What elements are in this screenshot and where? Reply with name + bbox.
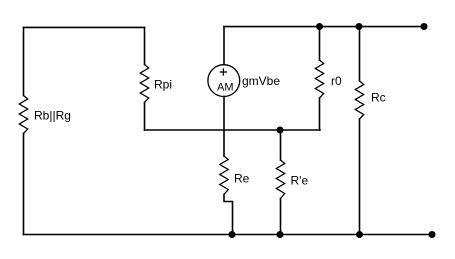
node dot R'e bottom xyxy=(277,231,284,238)
wire Rpi bottom lead xyxy=(144,103,146,131)
node dot output terminal top right xyxy=(421,23,428,30)
wire current source top lead xyxy=(223,27,225,65)
wire left vertical upper xyxy=(23,27,25,95)
svg-text:R'e: R'e xyxy=(291,174,309,188)
wire middle rail xyxy=(145,129,321,131)
wire R'e bottom lead xyxy=(280,199,282,235)
node dot Re bottom xyxy=(229,231,236,238)
svg-text:r0: r0 xyxy=(331,74,342,88)
wire r0 top lead xyxy=(319,27,321,60)
wire top-right segment xyxy=(224,26,424,28)
svg-text:Rb||Rg: Rb||Rg xyxy=(34,109,71,123)
wire r0 bottom lead xyxy=(319,98,321,130)
wire left vertical lower xyxy=(23,134,25,235)
resistor r0 xyxy=(315,60,323,98)
wire current source bottom lead xyxy=(223,97,225,157)
svg-text:Rpi: Rpi xyxy=(154,78,172,92)
resistor Rpi xyxy=(140,65,148,103)
svg-text:gmVbe: gmVbe xyxy=(242,74,280,88)
resistor Re xyxy=(220,156,228,195)
wire Rc top lead xyxy=(359,27,361,81)
wire bottom rail xyxy=(24,234,433,236)
node dot Rc top xyxy=(356,23,363,30)
resistor Rb||Rg xyxy=(19,96,27,134)
resistor R'e xyxy=(276,160,284,199)
svg-text:Rc: Rc xyxy=(371,91,386,105)
wire Rpi top lead xyxy=(144,27,146,64)
node dot emitter junction xyxy=(277,127,284,134)
resistor Rc xyxy=(355,81,363,119)
svg-text:AM: AM xyxy=(217,82,234,94)
wire Re bottom jog xyxy=(224,195,233,235)
node dot r0 top xyxy=(316,23,323,30)
node dot Rc bottom xyxy=(356,231,363,238)
wire top-left segment xyxy=(24,26,145,28)
wire Rc bottom lead xyxy=(359,119,361,235)
svg-text:Re: Re xyxy=(234,172,250,186)
node dot bottom right terminal xyxy=(429,231,436,238)
current source U1 gmVbe xyxy=(208,65,240,97)
wire R'e top lead xyxy=(280,130,282,160)
